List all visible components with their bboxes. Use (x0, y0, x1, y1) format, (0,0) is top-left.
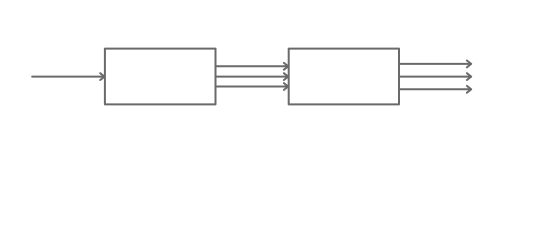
wire output arrow 2 (middle) (399, 73, 471, 80)
block 1 (left process box) (105, 49, 216, 105)
wire bus line 3 (block1 to block2, bottom) (216, 83, 289, 90)
wire bus line 1 (block1 to block2, top) (216, 63, 289, 70)
wire input arrow into block 1 (32, 73, 104, 80)
wire output arrow 1 (top) (399, 61, 471, 68)
wire output arrow 3 (bottom) (399, 86, 471, 93)
block 2 (right process box) (289, 49, 399, 105)
wire bus line 2 (block1 to block2, middle) (216, 73, 289, 80)
